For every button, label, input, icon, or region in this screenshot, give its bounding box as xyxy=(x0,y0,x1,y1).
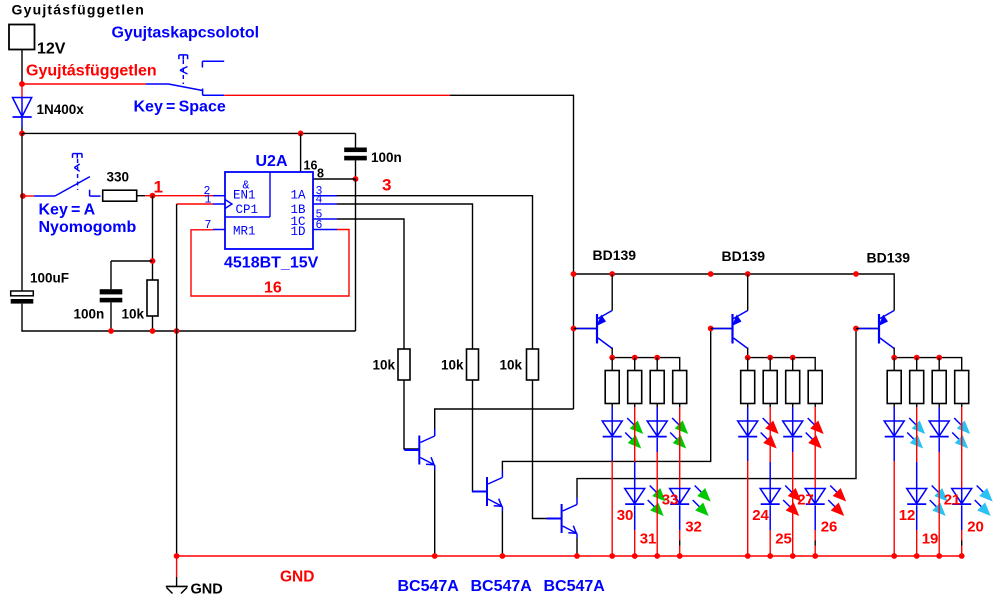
wire resistor R7 bottom stub xyxy=(634,404,636,408)
wire (red) supply node to switch S1 xyxy=(22,83,146,85)
wire rail to resistor 11 xyxy=(769,358,771,371)
U2A pin stub 3 (1A) xyxy=(313,195,337,197)
U2A pin stub 7 (MR1) xyxy=(213,229,225,231)
svg-text:100n: 100n xyxy=(74,307,105,322)
LED 24 (upper) xyxy=(738,418,779,449)
svg-text:10k: 10k xyxy=(441,358,464,373)
wire LED30 cathode to GND rail xyxy=(611,438,613,461)
junction at (355.5,179) pin8 node xyxy=(353,176,359,182)
svg-text:26: 26 xyxy=(821,519,838,536)
junction GND rail at x=634.7 xyxy=(632,553,638,559)
junction rail at x=747.7 xyxy=(745,271,751,277)
wire BD139#2 emitter from rail xyxy=(747,274,749,311)
LED 27 (upper) xyxy=(783,418,824,449)
junction R2 at (152.5,331) xyxy=(150,328,156,334)
wire col4 (red) to LED20 xyxy=(961,407,963,489)
wire col2 (red then blue) to LED25 xyxy=(769,407,771,462)
wire Q1 collector to BD139#1 base column xyxy=(435,409,574,429)
junction Q1 emitter at rail xyxy=(432,553,438,559)
LED 30 (upper) xyxy=(602,418,643,449)
svg-text:1: 1 xyxy=(205,194,212,207)
svg-text:32: 32 xyxy=(685,519,702,536)
wire resistor R8 bottom stub xyxy=(656,404,658,408)
LED 26 (lower) xyxy=(805,486,846,517)
wire resistor R14 bottom stub xyxy=(893,404,895,408)
wire (red) CP1 pin1 net xyxy=(177,203,213,205)
svg-text:6: 6 xyxy=(316,219,323,232)
svg-text:U2A: U2A xyxy=(256,153,288,170)
svg-text:16: 16 xyxy=(264,280,282,297)
wire BD139#2 base xyxy=(711,328,733,330)
wire LED block rail y=357.6 (from BD139 collector) xyxy=(893,348,895,358)
junction GND rail at x=939.2 xyxy=(936,553,942,559)
wire col3 to LED27 xyxy=(792,407,794,421)
svg-text:1N400x: 1N400x xyxy=(37,102,85,117)
wire LED21 cathode to GND rail xyxy=(938,438,940,452)
svg-text:12: 12 xyxy=(899,507,916,524)
wire Q2 collector to BD139#2 base (y=461.4) xyxy=(502,329,710,471)
svg-text:100uF: 100uF xyxy=(30,271,69,286)
svg-text:30: 30 xyxy=(617,507,634,524)
svg-text:4518BT_15V: 4518BT_15V xyxy=(224,255,319,272)
svg-text:BD139: BD139 xyxy=(722,248,766,264)
wire +12V rail y=274 xyxy=(574,274,895,311)
junction at (152.5,261) xyxy=(150,258,156,264)
resistor R15 (LED ballast) xyxy=(910,371,924,404)
wire resistor R10 bottom stub xyxy=(747,404,749,408)
wire col1 to LED30 xyxy=(611,407,613,421)
wire rail to resistor 12 xyxy=(792,358,794,371)
resistor R6 (LED ballast) xyxy=(605,371,619,404)
junction GND rail at x=792.7 xyxy=(790,553,796,559)
LED 21 (upper) xyxy=(929,418,970,449)
wire LED32 cathode to GND rail xyxy=(679,505,681,530)
wire Q1 emitter to GND rail xyxy=(434,470,436,557)
wire x=573.5 from +12V to y=409 (crosses rail) xyxy=(573,274,575,409)
svg-text:33: 33 xyxy=(662,492,679,509)
wire LED25 cathode to GND rail xyxy=(769,505,771,530)
junction LED-resistor rail at x=612.2 xyxy=(609,355,615,361)
wire col2 (red then blue) to LED31 xyxy=(634,407,636,462)
svg-text:1A: 1A xyxy=(291,189,307,203)
svg-text:4: 4 xyxy=(316,194,323,207)
switch S2 Key=A (pushbutton) xyxy=(34,154,101,197)
junction rail at x=612 xyxy=(609,271,615,277)
wire BD139#3 base xyxy=(856,328,879,330)
junction LED-resistor rail at x=747.7 xyxy=(745,355,751,361)
wire (red) S1 to right xyxy=(224,94,450,96)
svg-text:BC547A: BC547A xyxy=(544,578,606,595)
svg-text:Gyujtásfüggetlen: Gyujtásfüggetlen xyxy=(26,63,157,80)
junction LED-resistor rail at x=939.2 xyxy=(936,355,942,361)
wire resistor R12 bottom stub xyxy=(792,404,794,408)
junction CP1 net at (176.6,331) xyxy=(174,328,180,334)
svg-text:20: 20 xyxy=(967,519,984,536)
wire R1 right stub xyxy=(137,195,146,197)
wire Q3 collector to BD139#3 base (y=478.6) xyxy=(577,329,856,498)
wire resistor R13 bottom stub xyxy=(814,404,816,408)
svg-text:GND: GND xyxy=(191,582,223,598)
junction net 1 at (152.5,195.7) xyxy=(150,193,156,199)
resistor R8 (LED ballast) xyxy=(650,371,664,404)
transistor Q3 BC547A xyxy=(547,498,577,539)
junction LED-resistor rail at x=657.2 xyxy=(654,355,660,361)
junction LED-resistor rail at x=916.7 xyxy=(914,355,920,361)
wire resistor R9 bottom stub xyxy=(679,404,681,408)
wire LED31 cathode to GND rail xyxy=(634,505,636,530)
wire V1 bottom to node xyxy=(21,50,23,85)
wire col3 to LED21 xyxy=(938,407,940,421)
wire to U2A pin 16 xyxy=(300,133,302,172)
wire (red) node to switch S2 xyxy=(23,195,34,197)
junction at pin16 branch xyxy=(298,131,304,137)
wire bottom-left horizontal y=331 xyxy=(21,330,355,332)
junction rail at x=710.7 xyxy=(708,271,714,277)
resistor R9 (LED ballast) xyxy=(673,371,687,404)
wire Q2 emitter to GND rail xyxy=(501,511,503,556)
wire (red) feedback 1D->MR1 net 16 xyxy=(191,230,349,297)
svg-text:MR1: MR1 xyxy=(233,225,256,239)
wire LED33 cathode to GND rail xyxy=(656,438,658,452)
svg-text:1D: 1D xyxy=(291,225,306,239)
junction Q3 emitter at rail xyxy=(574,553,580,559)
junction GND rail left end xyxy=(174,553,180,559)
U2A pin stub 4 (1B) xyxy=(313,203,337,205)
svg-text:BD139: BD139 xyxy=(593,247,637,263)
svg-text:CP1: CP1 xyxy=(236,203,259,217)
svg-text:Nyomogomb: Nyomogomb xyxy=(39,219,137,236)
wire net from pin 3 (1A) to R5 10k xyxy=(337,196,533,349)
voltage source V1 12V xyxy=(9,25,35,50)
wire resistor R11 bottom stub xyxy=(769,404,771,408)
svg-text:21: 21 xyxy=(944,492,961,509)
resistor R1 330 xyxy=(103,190,137,201)
transistor Q6 BD139 xyxy=(859,311,894,349)
svg-text:16: 16 xyxy=(304,159,318,173)
wire rail to resistor 14 xyxy=(893,358,895,371)
svg-text:100n: 100n xyxy=(371,150,402,165)
resistor R12 (LED ballast) xyxy=(786,371,800,404)
wire Q3 emitter to GND rail xyxy=(576,538,578,556)
svg-text:GND: GND xyxy=(280,569,314,586)
resistor R17 (LED ballast) xyxy=(955,371,969,404)
svg-text:12V: 12V xyxy=(37,41,66,58)
wire LED26 cathode to GND rail xyxy=(814,505,816,530)
U2A pin stub 6 (1D) xyxy=(313,229,337,231)
junction LED-resistor rail at x=792.7 xyxy=(790,355,796,361)
junction C3 at (111,331) xyxy=(108,328,114,334)
wire rail to resistor 16 xyxy=(938,358,940,371)
svg-text:Key = Space: Key = Space xyxy=(134,99,226,116)
junction GND rail at x=612.2 xyxy=(609,553,615,559)
junction LED-resistor rail at x=770.2 xyxy=(767,355,773,361)
junction BD139#2 base at (710.7,328.5) xyxy=(708,326,714,332)
diode D1 1N400x xyxy=(13,84,32,133)
junction BD139#1 base at (573.5,328.5) xyxy=(571,326,577,332)
wire rail to resistor 8 xyxy=(656,358,658,371)
wire LED24 cathode to GND rail xyxy=(747,438,749,461)
junction at (22.8,196) xyxy=(20,193,26,199)
junction GND rail at x=961.7 xyxy=(959,553,965,559)
svg-text:27: 27 xyxy=(797,492,814,509)
resistor R14 (LED ballast) xyxy=(887,371,901,404)
switch S1 Key=Space xyxy=(146,55,225,95)
LED 19 (lower) xyxy=(907,486,948,517)
svg-text:BC547A: BC547A xyxy=(471,578,533,595)
transistor Q4 BD139 xyxy=(577,311,612,349)
wire col1 to LED24 xyxy=(747,407,749,421)
junction LED-resistor rail at x=634.7 xyxy=(632,355,638,361)
wire col2 (red then blue) to LED19 xyxy=(916,407,918,462)
capacitor C3 100n (left) xyxy=(100,289,123,331)
junction GND rail at x=657.2 xyxy=(654,553,660,559)
resistor R5 10k xyxy=(527,349,539,380)
wire LED12 cathode to GND rail xyxy=(893,438,895,461)
wire resistor R6 bottom stub xyxy=(611,404,613,408)
junction rail at x=573.5 xyxy=(571,271,577,277)
resistor R7 (LED ballast) xyxy=(628,371,642,404)
capacitor C1 100n (top right) xyxy=(344,133,367,179)
wire BD139#1 base xyxy=(574,328,598,330)
LED 31 (lower) xyxy=(625,486,666,517)
wire GND rail (red) y=556 xyxy=(177,555,962,557)
U2A pin stub 5 (1C) xyxy=(313,218,337,220)
wire col4 (red) to LED26 xyxy=(814,407,816,489)
LED 25 (lower) xyxy=(760,486,801,517)
wire BD139#1 emitter from rail xyxy=(611,274,613,311)
junction GND rail at x=916.7 xyxy=(914,553,920,559)
svg-text:24: 24 xyxy=(752,507,769,524)
resistor R3 10k xyxy=(398,349,410,380)
wire net from pin 4 (1B) to R4 10k xyxy=(337,204,473,349)
capacitor C2 100uF (electrolytic: hollow + solid plate) xyxy=(11,133,34,331)
op-amp/counter U2A 4518BT_15V body xyxy=(225,172,313,249)
resistor R16 (LED ballast) xyxy=(932,371,946,404)
wire resistor R17 bottom stub xyxy=(961,404,963,408)
wire LED20 cathode to GND rail xyxy=(961,505,963,530)
svg-text:10k: 10k xyxy=(122,307,145,322)
wire rail to resistor 7 xyxy=(634,358,636,371)
wire horizontal VCC distribution y=133 xyxy=(22,132,356,134)
svg-text:BD139: BD139 xyxy=(867,250,911,266)
wire net 1 down to bottom wire xyxy=(152,196,154,331)
junction GND rail at x=747.7 xyxy=(745,553,751,559)
wire (black) to +12V rail, down at x=573.5 xyxy=(450,95,574,274)
svg-text:25: 25 xyxy=(775,531,792,548)
wire resistor R15 bottom stub xyxy=(916,404,918,408)
resistor R4 10k xyxy=(467,349,479,380)
wire col4 (red) to LED32 xyxy=(679,407,681,489)
junction LED-resistor rail at x=894.2 xyxy=(891,355,897,361)
resistor R11 (LED ballast) xyxy=(763,371,777,404)
svg-text:Gyujtásfüggetlen: Gyujtásfüggetlen xyxy=(12,2,146,18)
wire U2A pin 8 to node xyxy=(313,178,356,180)
U2A pin stub 1 (CP1) xyxy=(213,203,225,205)
svg-text:EN1: EN1 xyxy=(233,189,256,203)
junction BD139#3 base at (856,328.5) xyxy=(853,326,859,332)
U2A pin stub 2 (EN1) xyxy=(213,195,225,197)
wire junction to C3 top xyxy=(111,260,153,262)
wire pin8 node down to ground wire y=331 xyxy=(355,179,357,331)
svg-text:8: 8 xyxy=(317,167,324,181)
transistor Q2 BC547A xyxy=(472,471,502,512)
svg-text:19: 19 xyxy=(922,531,939,548)
wire (red) net 1 to U2A EN1 pin 2 xyxy=(145,195,213,197)
svg-text:330: 330 xyxy=(107,170,130,185)
LED 32 (lower) xyxy=(670,486,711,517)
junction rail at x=856 xyxy=(853,271,859,277)
wire resistor R16 bottom stub xyxy=(938,404,940,408)
junction at (22,133) xyxy=(19,131,25,137)
svg-text:BC547A: BC547A xyxy=(398,578,460,595)
wire R3 to Q1 base xyxy=(404,380,419,449)
wire R4 to Q2 base xyxy=(473,380,488,492)
svg-text:31: 31 xyxy=(640,531,657,548)
wire LED27 cathode to GND rail xyxy=(792,438,794,452)
wire rail to resistor 6 xyxy=(611,358,613,371)
junction GND rail at x=679.7 xyxy=(677,553,683,559)
wire LED block rail y=357.6 (from BD139 collector) xyxy=(747,348,749,358)
svg-text:10k: 10k xyxy=(373,358,396,373)
junction supply node xyxy=(19,81,25,87)
LED 12 (upper) xyxy=(884,418,925,449)
junction GND rail at x=815.2 xyxy=(812,553,818,559)
wire rail to resistor 15 xyxy=(916,358,918,371)
svg-text:10k: 10k xyxy=(500,358,523,373)
wire net from pin 5 (1C) to R3 10k xyxy=(337,219,404,349)
junction GND rail at x=770.2 xyxy=(767,553,773,559)
svg-text:Gyujtaskapcsolotol: Gyujtaskapcsolotol xyxy=(112,25,260,42)
LED 20 (lower) xyxy=(952,486,993,517)
resistor R13 (LED ballast) xyxy=(808,371,822,404)
svg-text:3: 3 xyxy=(382,176,391,195)
wire LED block rail y=357.6 (from BD139 collector) xyxy=(611,348,613,358)
resistor R10 (LED ballast) xyxy=(741,371,755,404)
svg-text:Key = A: Key = A xyxy=(39,202,96,219)
wire LED19 cathode to GND rail xyxy=(916,505,918,530)
wire col3 to LED33 xyxy=(656,407,658,421)
resistor R2 10k (left) xyxy=(147,280,158,316)
LED 33 (upper) xyxy=(647,418,688,449)
transistor Q5 BD139 xyxy=(713,311,748,349)
svg-text:1: 1 xyxy=(154,178,163,197)
wire rail to resistor 10 xyxy=(747,358,749,371)
junction Q2 emitter at rail xyxy=(500,553,506,559)
junction GND rail at x=894.2 xyxy=(891,553,897,559)
wire R5 to Q3 base xyxy=(533,380,562,519)
wire col1 to LED12 xyxy=(893,407,895,421)
transistor Q1 BC547A xyxy=(404,429,434,470)
wire CP1 net down to GND rail xyxy=(176,204,178,556)
ground symbol xyxy=(166,556,188,594)
